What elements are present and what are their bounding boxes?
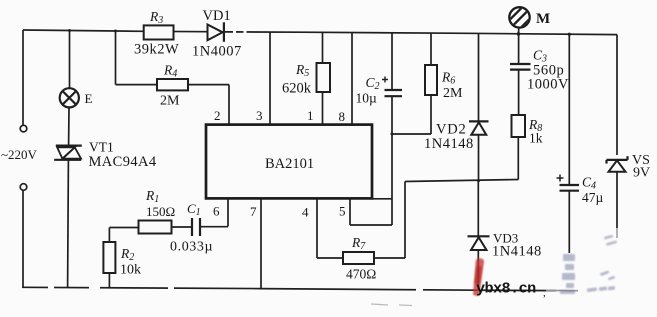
svg-text:VD1: VD1 xyxy=(203,8,231,24)
svg-text:9V: 9V xyxy=(633,166,650,181)
svg-text:1N4148: 1N4148 xyxy=(492,244,542,260)
svg-text:2M: 2M xyxy=(443,86,463,101)
svg-text:1N4007: 1N4007 xyxy=(192,44,242,60)
svg-text:4: 4 xyxy=(302,205,309,220)
svg-text:1k: 1k xyxy=(529,131,543,146)
svg-text:,: , xyxy=(543,287,546,299)
svg-text:~220V: ~220V xyxy=(1,147,38,162)
svg-text:2M: 2M xyxy=(160,94,180,109)
svg-text:1000V: 1000V xyxy=(527,77,569,93)
svg-text:E: E xyxy=(85,91,93,106)
svg-text:C1: C1 xyxy=(187,201,201,218)
svg-text:M: M xyxy=(536,11,550,27)
svg-text:39k2W: 39k2W xyxy=(134,42,179,58)
svg-text:1N4148: 1N4148 xyxy=(424,136,474,152)
svg-text:1: 1 xyxy=(307,108,314,123)
svg-text:2: 2 xyxy=(214,108,221,123)
svg-text:5: 5 xyxy=(339,204,346,219)
svg-text:620k: 620k xyxy=(282,81,312,97)
svg-text:R5: R5 xyxy=(295,62,309,79)
svg-text:470Ω: 470Ω xyxy=(346,267,376,282)
svg-text:150Ω: 150Ω xyxy=(146,204,175,219)
svg-text:R1: R1 xyxy=(145,188,159,205)
svg-text:10µ: 10µ xyxy=(356,91,378,106)
svg-text:R2: R2 xyxy=(120,246,134,263)
svg-text:0.033µ: 0.033µ xyxy=(170,240,213,255)
svg-text:6: 6 xyxy=(213,204,220,219)
svg-text:VT1: VT1 xyxy=(89,140,114,155)
svg-text:R6: R6 xyxy=(441,70,455,87)
svg-text:MAC94A4: MAC94A4 xyxy=(89,154,157,170)
svg-text:C4: C4 xyxy=(582,175,596,192)
svg-text:C2: C2 xyxy=(366,75,380,92)
svg-text:10k: 10k xyxy=(120,263,141,278)
svg-text:R3: R3 xyxy=(149,9,163,26)
svg-text:7: 7 xyxy=(250,204,257,219)
svg-text:3: 3 xyxy=(256,108,263,123)
svg-text:ybx8.cn: ybx8.cn xyxy=(476,280,536,298)
svg-text:47µ: 47µ xyxy=(582,190,604,205)
svg-text:8: 8 xyxy=(339,109,346,124)
svg-text:R4: R4 xyxy=(163,63,177,80)
svg-text:R7: R7 xyxy=(351,235,366,252)
svg-text:BA2101: BA2101 xyxy=(265,156,314,172)
